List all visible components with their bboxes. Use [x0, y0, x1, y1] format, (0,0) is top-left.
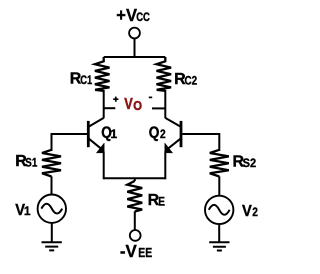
- ground left: [42, 242, 62, 250]
- svg-text:V: V: [242, 202, 253, 220]
- wire RC2 to Q2 collector: [164, 90, 166, 118]
- svg-text:E: E: [158, 196, 165, 209]
- wire Q2 emitter down: [164, 152, 166, 180]
- label RC2: [174, 71, 197, 88]
- transistor Q1: [88, 118, 104, 153]
- resistor RS1: [42, 150, 61, 195]
- transistor Q2: [165, 118, 181, 153]
- label RS1: [15, 153, 37, 170]
- resistor RC2: [157, 57, 172, 91]
- node Vo label: [124, 96, 142, 114]
- wire RC1 to Q1 collector: [103, 90, 105, 118]
- label RE: [148, 192, 165, 209]
- ground right: [209, 242, 229, 250]
- wire V2 to ground: [218, 224, 220, 242]
- wire Q2 base to RS2: [182, 134, 219, 151]
- svg-text:C1: C1: [80, 74, 92, 87]
- svg-text:S2: S2: [243, 158, 256, 170]
- node Vo+ tick: [104, 107, 116, 109]
- svg-text:1: 1: [24, 204, 31, 218]
- label V2: [242, 202, 258, 220]
- svg-text:EE: EE: [138, 246, 152, 260]
- wire Q1 emitter down: [103, 152, 105, 180]
- resistor RC1: [95, 57, 110, 91]
- label minus sign: [149, 96, 152, 98]
- wire V1 to ground: [51, 223, 53, 242]
- +VCC terminal: [129, 28, 140, 39]
- node Vo- tick: [152, 107, 165, 109]
- svg-text:S1: S1: [25, 157, 37, 170]
- resistor RE: [127, 178, 142, 230]
- label plus sign: [113, 97, 118, 102]
- node -VEE label: [120, 241, 152, 262]
- svg-text:1: 1: [111, 127, 118, 141]
- label Q2: [149, 125, 166, 142]
- svg-text:Q: Q: [149, 125, 160, 142]
- wire Q1 base to RS1: [52, 134, 88, 151]
- svg-text:2: 2: [252, 206, 258, 219]
- label V1: [15, 201, 31, 219]
- svg-text:O: O: [133, 99, 142, 114]
- wire VCC terminal to rail: [134, 38, 136, 58]
- label RS2: [233, 154, 257, 171]
- wire top rail: [104, 56, 166, 58]
- resistor RS2: [210, 150, 229, 196]
- source V2: [205, 196, 233, 224]
- svg-text:2: 2: [160, 128, 166, 141]
- wire emitter rail: [104, 177, 166, 179]
- svg-text:C2: C2: [185, 74, 198, 87]
- label Q1: [101, 125, 117, 142]
- svg-text:V: V: [124, 96, 133, 114]
- node +VCC label: [116, 5, 150, 26]
- svg-text:CC: CC: [136, 11, 150, 24]
- svg-text:+V: +V: [116, 5, 137, 26]
- -VEE terminal: [130, 230, 141, 241]
- label RC1: [70, 71, 92, 88]
- source V1: [38, 195, 66, 223]
- svg-text:-V: -V: [120, 241, 137, 262]
